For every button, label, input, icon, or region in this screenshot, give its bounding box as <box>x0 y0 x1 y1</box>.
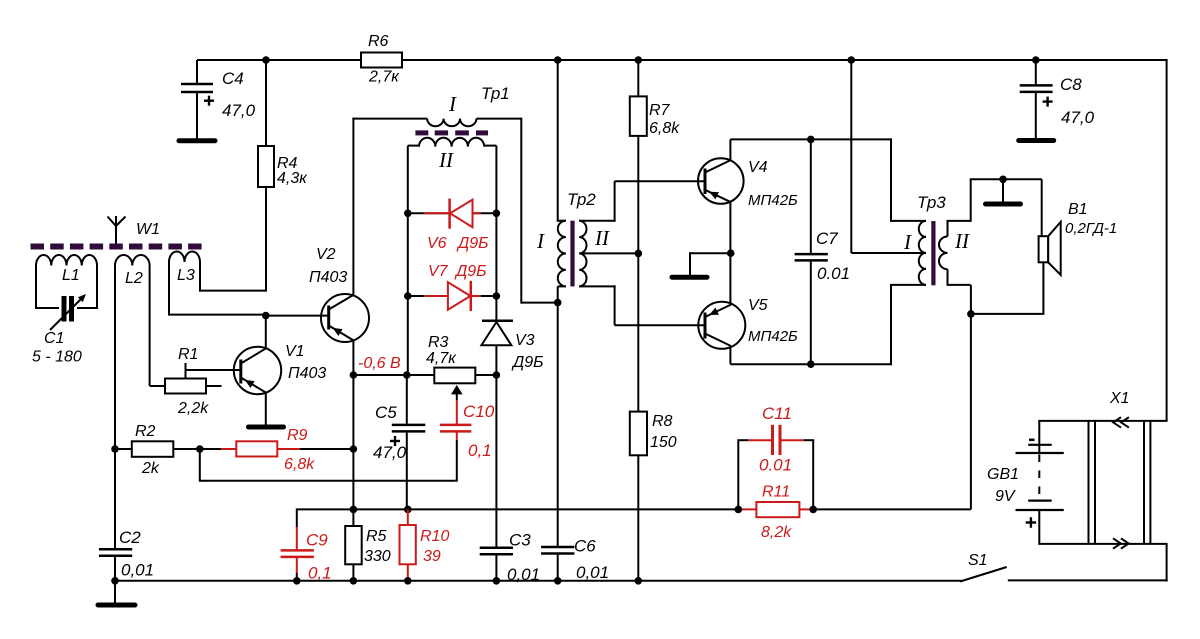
svg-text:C8: C8 <box>1060 75 1082 94</box>
resistor R6 <box>361 53 402 68</box>
wire X1 top <box>1038 420 1167 422</box>
node C7 top junction <box>807 136 815 144</box>
wire R4 to L3 <box>200 290 266 292</box>
svg-text:L1: L1 <box>62 267 80 284</box>
svg-text:II: II <box>954 229 970 253</box>
svg-text:Д9Б: Д9Б <box>454 263 487 280</box>
svg-text:-0,6 В: -0,6 В <box>358 355 401 372</box>
wire right detector column upper <box>495 146 497 321</box>
resistor R9 <box>200 448 221 450</box>
node R9 right junction <box>350 445 358 453</box>
svg-text:9V: 9V <box>995 488 1016 505</box>
wire V4 collector rail <box>730 138 892 140</box>
svg-text:Д9Б: Д9Б <box>511 354 544 371</box>
svg-text:V7: V7 <box>428 263 449 280</box>
svg-text:C11: C11 <box>762 404 792 423</box>
svg-text:C10: C10 <box>463 402 495 421</box>
node speaker/Tp3 junction <box>967 310 975 318</box>
transformer Tp3 winding II <box>947 221 949 237</box>
node R10 bottom junction <box>404 577 412 585</box>
svg-text:V3: V3 <box>515 332 535 349</box>
capacitor C4 <box>196 60 198 85</box>
wire Tp3 primary top <box>890 138 892 222</box>
node V3/R3/C3 junction <box>493 371 501 379</box>
svg-text:R8: R8 <box>652 413 673 430</box>
svg-text:4,7к: 4,7к <box>426 350 457 367</box>
svg-text:R5: R5 <box>366 528 387 545</box>
wire C10 to R2/R9 junction <box>456 440 458 482</box>
core of Tp1 (dashes) <box>415 130 488 135</box>
svg-text:R7: R7 <box>649 102 671 119</box>
svg-text:Тр2: Тр2 <box>567 190 596 209</box>
switch S1 <box>960 567 1007 582</box>
speaker B1 <box>1039 236 1049 262</box>
svg-text:П403: П403 <box>309 269 347 286</box>
svg-text:2k: 2k <box>141 460 160 477</box>
node R2 left junction <box>111 445 119 453</box>
svg-text:2,7к: 2,7к <box>368 69 400 86</box>
svg-text:8,2k: 8,2k <box>761 524 792 541</box>
resistor R8 <box>637 253 639 411</box>
resistor R10 <box>407 509 409 525</box>
capacitor C10 <box>456 400 458 424</box>
svg-text:V4: V4 <box>748 159 768 176</box>
resistor R3 <box>434 368 475 384</box>
svg-text:П403: П403 <box>288 365 326 382</box>
svg-text:V6: V6 <box>427 235 447 252</box>
svg-text:V2: V2 <box>316 246 336 263</box>
svg-text:V1: V1 <box>285 343 305 360</box>
svg-text:4,3к: 4,3к <box>277 170 308 187</box>
svg-text:0,1: 0,1 <box>468 441 492 460</box>
svg-text:C5: C5 <box>375 403 397 422</box>
node C7 bottom junction <box>807 360 815 368</box>
node Tp2/Tp1 junction <box>554 299 562 307</box>
node V6 right junction <box>493 210 501 218</box>
resistor R5 <box>352 509 354 526</box>
wire node to V2 base <box>266 315 329 317</box>
wire feedback line right <box>813 508 971 510</box>
node C3 bottom junction <box>493 577 501 585</box>
ground (C8) <box>1019 138 1054 143</box>
wire Tp1 right frame <box>520 119 522 304</box>
svg-text:V5: V5 <box>748 297 768 314</box>
svg-text:R2: R2 <box>135 423 156 440</box>
node V2 emitter junction <box>350 371 358 379</box>
node R7 top junction <box>635 56 643 64</box>
inductor L1 <box>36 255 97 265</box>
node C9 bottom junction <box>293 577 301 585</box>
wire Tp3 centre tap riser <box>850 60 852 253</box>
wire bottom positive rail <box>115 580 961 582</box>
capacitor C6 <box>557 303 559 546</box>
resistor R7 <box>637 60 639 96</box>
svg-text:I: I <box>536 229 545 253</box>
wire Tp3 primary bottom <box>890 285 892 365</box>
svg-text:R3: R3 <box>428 334 449 351</box>
resistor R1 <box>165 379 206 394</box>
wire V5 collector rail <box>730 363 892 365</box>
svg-text:150: 150 <box>650 434 677 451</box>
svg-text:C2: C2 <box>119 528 141 547</box>
R3 wiper arrow <box>451 385 463 394</box>
svg-text:I: I <box>903 230 912 254</box>
transistor V1 <box>234 347 281 394</box>
svg-text:X1: X1 <box>1109 390 1130 407</box>
svg-text:47,0: 47,0 <box>373 443 407 462</box>
svg-text:L2: L2 <box>125 270 143 287</box>
node ground tap <box>999 176 1007 184</box>
wire Tp2 primary riser <box>557 59 559 222</box>
connector X1 contact lines <box>1088 421 1090 544</box>
svg-text:МП42Б: МП42Б <box>748 328 798 345</box>
svg-text:R9: R9 <box>287 427 308 444</box>
wire Tp3 II top to speaker <box>970 179 972 222</box>
ground (V1 emitter) <box>249 425 284 430</box>
node R10 top junction <box>404 506 412 514</box>
diode V3 <box>482 320 513 323</box>
svg-text:6,8k: 6,8k <box>284 456 315 473</box>
transistor V4 <box>698 158 744 204</box>
wire C2 to ground <box>114 581 116 603</box>
svg-text:W1: W1 <box>136 221 160 238</box>
svg-text:0,1: 0,1 <box>308 564 332 583</box>
transistor V5 <box>698 302 745 349</box>
capacitor C8 <box>1035 60 1037 84</box>
wire Tp1 left frame (V2 collector) <box>352 118 354 295</box>
node V7 right junction <box>493 292 501 300</box>
wire left detector column <box>407 146 409 376</box>
svg-text:330: 330 <box>364 548 391 565</box>
wire feedback line left <box>297 508 739 510</box>
wire speaker bottom <box>1042 262 1044 314</box>
node V6 left junction <box>404 210 412 218</box>
node C6 bottom junction <box>554 577 562 585</box>
node R5 bottom junction <box>350 577 358 585</box>
svg-text:R6: R6 <box>368 33 389 50</box>
svg-text:GB1: GB1 <box>987 466 1019 483</box>
variable capacitor C1 <box>62 296 67 322</box>
transformer Tp2 winding I <box>558 220 566 222</box>
svg-text:Д9Б: Д9Б <box>456 235 489 252</box>
node R8 bottom junction <box>635 577 643 585</box>
node V1 collector junction <box>262 312 270 320</box>
capacitor C11 <box>737 440 739 509</box>
svg-text:МП42Б: МП42Б <box>748 192 798 209</box>
node R11 right junction <box>809 506 817 514</box>
node C2 bottom junction <box>111 577 119 585</box>
svg-text:C6: C6 <box>574 537 596 556</box>
wire top negative supply rail <box>197 59 1168 61</box>
transformer Tp1 winding I <box>352 118 427 120</box>
node C5 junction <box>403 371 411 379</box>
capacitor C3 <box>495 375 497 547</box>
resistor R4 <box>265 60 267 146</box>
svg-text:0,01: 0,01 <box>121 561 154 580</box>
node emitter junction <box>727 249 735 257</box>
svg-text:5 - 180: 5 - 180 <box>32 349 82 366</box>
transformer Tp1 winding II <box>419 138 484 147</box>
wire V4/V5 emitter junction to ground <box>690 252 731 254</box>
ground (C4) <box>179 138 215 143</box>
svg-text:II: II <box>438 148 454 172</box>
diode V7 <box>408 295 497 297</box>
svg-text:C4: C4 <box>222 69 244 88</box>
transformer Tp3 winding I <box>919 221 926 285</box>
core of Tp2 <box>570 221 574 287</box>
capacitor C7 <box>810 139 812 254</box>
connector X1 bottom chevrons <box>1113 538 1121 548</box>
svg-text:II: II <box>594 226 610 250</box>
node R7/R8/Tp2 tap <box>635 250 643 258</box>
node V7 left junction <box>404 292 412 300</box>
svg-text:0,2ГД-1: 0,2ГД-1 <box>1065 220 1117 237</box>
svg-text:0.01: 0.01 <box>817 264 850 283</box>
capacitor C5 <box>406 375 408 424</box>
diode V6 <box>408 212 497 214</box>
wire top-right vertical to X1 <box>1166 60 1168 421</box>
svg-text:6,8k: 6,8k <box>649 120 680 137</box>
node R4 top junction <box>262 56 270 64</box>
svg-text:Тр1: Тр1 <box>481 84 510 103</box>
node R2/R9 junction <box>196 445 204 453</box>
wire R9 node down <box>352 449 354 509</box>
node Tp2 rail junction <box>554 56 562 64</box>
svg-text:C3: C3 <box>509 531 531 550</box>
svg-text:L3: L3 <box>177 267 195 284</box>
transformer Tp2 winding II <box>579 221 586 287</box>
svg-text:R1: R1 <box>178 346 198 363</box>
svg-text:0.01: 0.01 <box>759 456 792 475</box>
svg-text:47,0: 47,0 <box>222 101 256 120</box>
resistor R2 <box>115 448 132 450</box>
node C8 rail junction <box>1032 56 1040 64</box>
svg-text:I: I <box>448 92 457 116</box>
capacitor C9 <box>296 508 298 527</box>
svg-text:Тр3: Тр3 <box>917 193 946 212</box>
transistor V2 <box>321 294 369 342</box>
ground (emitters) <box>672 275 707 280</box>
svg-text:2,2k: 2,2k <box>177 400 209 417</box>
svg-text:39: 39 <box>423 548 441 565</box>
ground (C2) <box>98 603 135 608</box>
antenna W1 <box>115 216 117 244</box>
svg-text:47,0: 47,0 <box>1061 108 1095 127</box>
svg-text:C9: C9 <box>306 531 328 550</box>
resistor R11 <box>738 508 756 510</box>
inductor L2 <box>115 255 150 265</box>
capacitor C2 <box>114 449 116 548</box>
svg-text:S1: S1 <box>968 552 988 569</box>
node R11 left junction <box>735 506 743 514</box>
wire Tp3 II bottom drop <box>970 285 972 510</box>
core of Tp3 <box>931 221 935 285</box>
svg-text:B1: B1 <box>1068 201 1088 218</box>
wire -0.6V node to R9 node <box>352 375 354 449</box>
wire ground tap <box>1002 179 1004 201</box>
svg-text:C7: C7 <box>816 229 838 248</box>
svg-text:R11: R11 <box>762 484 790 501</box>
wire speaker top drop <box>1041 179 1043 236</box>
svg-text:C1: C1 <box>44 330 64 347</box>
ferrite rod core of W1 (dashed bar) <box>31 244 202 250</box>
connector X1 top chevrons <box>1113 417 1121 427</box>
svg-text:R10: R10 <box>420 528 449 545</box>
ground (speaker circuit) <box>986 202 1021 207</box>
battery GB1 <box>1038 421 1040 452</box>
node R5 top junction <box>350 506 358 514</box>
wire X1 bottom <box>1038 543 1167 545</box>
inductor L3 <box>169 252 200 263</box>
svg-text:0,01: 0,01 <box>576 563 609 582</box>
wire V2 emitter node (-0,6 V) <box>353 374 434 376</box>
node Tp3 tap rail junction <box>848 56 856 64</box>
